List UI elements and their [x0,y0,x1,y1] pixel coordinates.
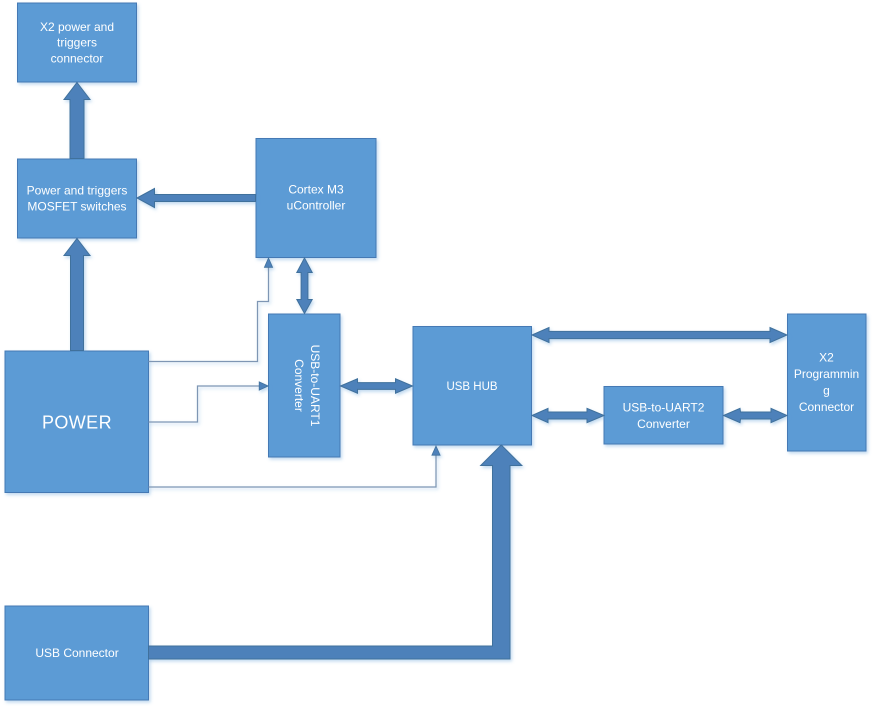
svg-text:g: g [823,384,830,398]
arrow A1: MOSFET switches to X2 power connector (up) [64,83,90,159]
block B3: Cortex M3 uController [256,139,376,258]
svg-text:Converter: Converter [637,417,690,431]
arrow A3: POWER to MOSFET switches (up) [64,239,90,351]
wire W1: POWER to Cortex M3 (thin) [149,258,273,362]
block B2: Power and triggers MOSFET switches [18,159,137,238]
arrow A9: USB Connector to USB HUB (big L-shaped, up) [149,445,522,659]
svg-text:triggers: triggers [57,36,97,50]
svg-text:Power and triggers: Power and triggers [27,184,128,198]
block B4: POWER [5,351,149,493]
svg-text:USB HUB: USB HUB [446,381,497,393]
block B8: X2 Programming Connector [788,314,867,451]
arrow A5: UART1 / USB HUB double arrow (horizontal) [341,379,413,393]
svg-text:uController: uController [287,199,346,213]
svg-text:Converter: Converter [292,359,306,412]
block B9: USB Connector [5,606,149,700]
arrow A7: USB HUB / UART2 double arrow (horizontal) [532,408,604,422]
svg-text:connector: connector [51,52,104,66]
svg-text:MOSFET switches: MOSFET switches [27,200,126,214]
arrow A2: Cortex M3 to MOSFET switches (left) [137,189,256,208]
svg-text:POWER: POWER [42,413,112,433]
arrow A8: UART2 / X2 Programming Connector double arrow (horizontal) [724,408,788,422]
svg-text:X2: X2 [819,351,834,365]
svg-text:Cortex M3: Cortex M3 [288,183,344,197]
wire W2: POWER to UART1 (thin) [149,382,269,422]
svg-text:Programmin: Programmin [794,367,859,381]
arrow A4: Cortex M3 / UART1 double arrow (vertical) [297,258,312,314]
block B1: X2 power and triggers connector [18,3,137,82]
wire W3: POWER to USB HUB (thin) [149,446,441,487]
arrow A6: USB HUB / X2 Programming Connector double arrow (horizontal, long) [532,328,787,343]
svg-text:USB Connector: USB Connector [35,646,118,660]
block B5: USB-to-UART1 Converter (rotated text) [269,314,341,457]
svg-text:USB-to-UART1: USB-to-UART1 [308,345,322,427]
svg-text:X2 power and: X2 power and [40,20,114,34]
svg-text:Connector: Connector [799,400,854,414]
block B6: USB HUB [413,327,532,446]
svg-text:USB-to-UART2: USB-to-UART2 [623,401,705,415]
block B7: USB-to-UART2 Converter [604,387,723,445]
